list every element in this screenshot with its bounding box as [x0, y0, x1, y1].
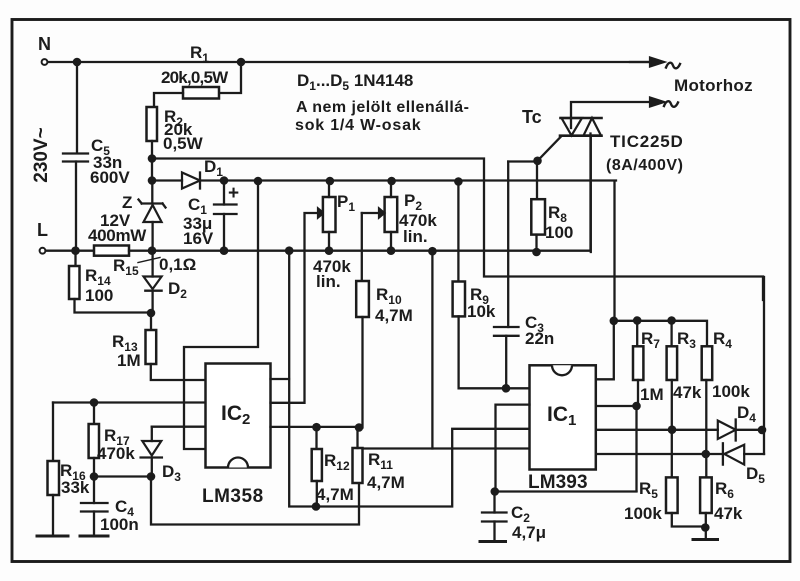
svg-text:TIC225D: TIC225D [610, 132, 684, 151]
svg-text:4,7M: 4,7M [316, 485, 354, 504]
svg-text:4,7M: 4,7M [375, 306, 413, 325]
svg-text:1M: 1M [640, 385, 664, 404]
svg-text:L: L [37, 220, 48, 240]
svg-text:Z: Z [122, 193, 132, 212]
svg-text:16V: 16V [183, 229, 214, 248]
svg-text:(8A/400V): (8A/400V) [606, 157, 683, 174]
svg-text:33k: 33k [61, 478, 90, 497]
svg-text:1M: 1M [117, 351, 141, 370]
svg-text:100n: 100n [100, 515, 139, 534]
svg-text:A nem jelölt ellenállá-: A nem jelölt ellenállá- [296, 99, 469, 116]
svg-text:Motorhoz: Motorhoz [674, 76, 753, 95]
svg-text:100: 100 [545, 223, 573, 242]
svg-text:LM358: LM358 [202, 486, 264, 507]
svg-text:230V~: 230V~ [31, 127, 52, 182]
svg-text:470k: 470k [97, 444, 135, 463]
svg-text:0,5W: 0,5W [163, 134, 204, 153]
svg-text:47k: 47k [673, 383, 702, 402]
svg-text:Tc: Tc [522, 107, 542, 127]
svg-text:47k: 47k [714, 504, 743, 523]
svg-text:20k,0,5W: 20k,0,5W [161, 68, 229, 87]
svg-text:lin.: lin. [316, 272, 341, 291]
svg-text:10k: 10k [467, 302, 496, 321]
svg-text:sok 1/4 W-osak: sok 1/4 W-osak [295, 117, 421, 134]
svg-text:100: 100 [85, 286, 113, 305]
svg-text:22n: 22n [525, 329, 554, 348]
svg-text:400mW: 400mW [88, 226, 147, 245]
svg-text:4,7μ: 4,7μ [512, 523, 546, 542]
svg-text:LM393: LM393 [528, 472, 588, 493]
svg-text:0,1Ω: 0,1Ω [159, 255, 196, 274]
svg-text:+: + [228, 183, 239, 204]
svg-text:100k: 100k [624, 504, 662, 523]
svg-text:4,7M: 4,7M [367, 473, 405, 492]
svg-text:100k: 100k [712, 382, 750, 401]
svg-text:N: N [38, 34, 51, 54]
svg-text:600V: 600V [90, 168, 130, 187]
svg-text:lin.: lin. [403, 227, 428, 246]
